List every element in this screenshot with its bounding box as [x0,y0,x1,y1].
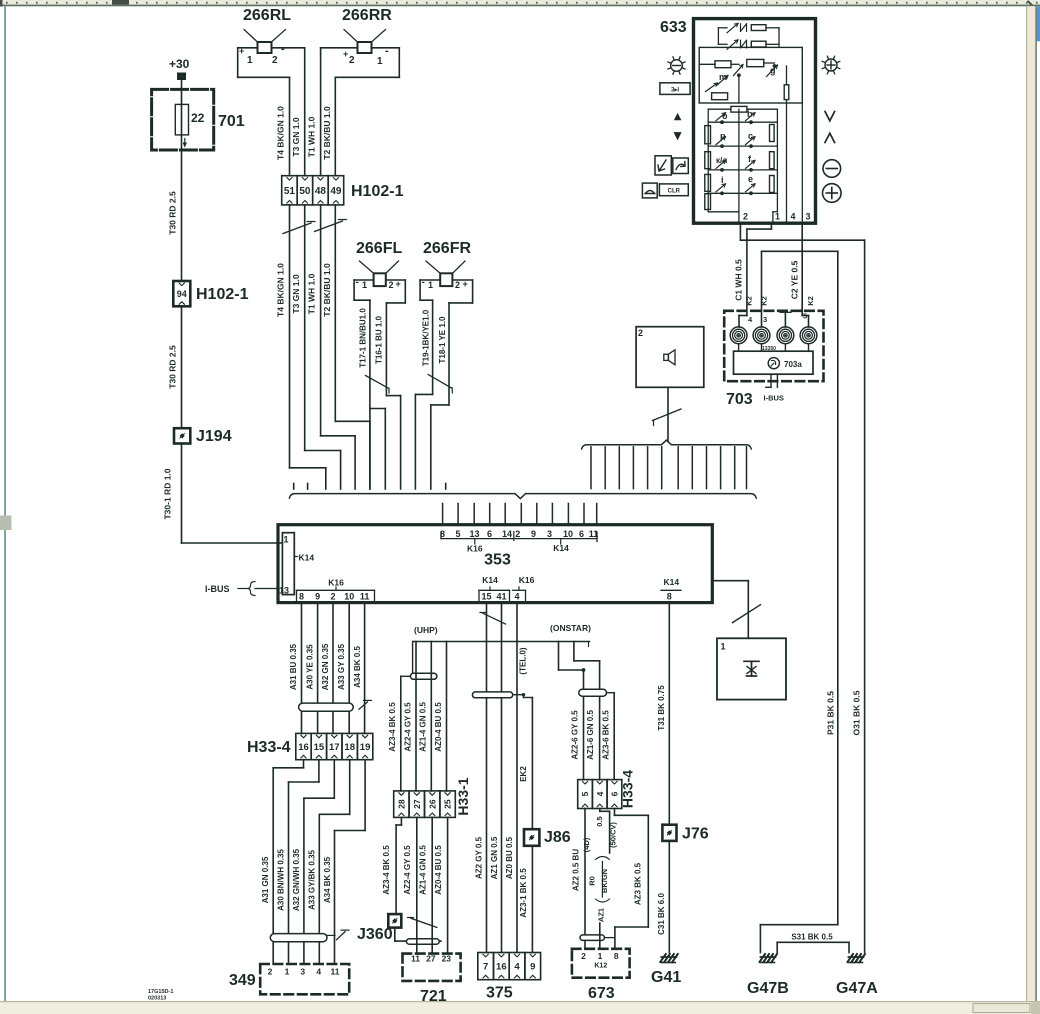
svg-text:I-BUS: I-BUS [764,394,784,403]
svg-text:020313: 020313 [148,996,166,1002]
svg-text:c: c [748,131,753,141]
svg-text:A31 GN 0.35: A31 GN 0.35 [261,856,270,903]
svg-text:5: 5 [455,529,460,539]
svg-text:(ONSTAR): (ONSTAR) [550,623,591,633]
svg-text:(50/CV): (50/CV) [608,822,617,848]
svg-text:K2: K2 [806,296,815,306]
svg-text:48: 48 [315,186,327,197]
svg-text:AZ0 BU 0.5: AZ0 BU 0.5 [505,836,514,879]
svg-text:A33 GY/BK 0.35: A33 GY/BK 0.35 [308,849,317,910]
svg-text:4: 4 [791,212,796,222]
svg-text:1: 1 [247,55,253,66]
svg-text:11: 11 [360,591,370,601]
svg-text:+: + [343,49,348,59]
svg-text:3▸I: 3▸I [671,88,679,94]
svg-text:8: 8 [667,591,672,601]
svg-text:721: 721 [420,988,447,1005]
svg-text:AZ1-4 GN 0.5: AZ1-4 GN 0.5 [419,845,428,895]
svg-text:AZ3 BK 0.5: AZ3 BK 0.5 [633,862,642,905]
svg-text:18: 18 [344,742,355,753]
svg-text:1: 1 [775,212,780,222]
svg-text:+: + [463,279,468,289]
svg-text:AZ3-4 BK 0.5: AZ3-4 BK 0.5 [382,845,391,895]
svg-text:349: 349 [229,972,256,989]
svg-text:8: 8 [614,951,619,961]
svg-text:J360: J360 [357,926,393,943]
svg-text:AZ1-6 GN 0.5: AZ1-6 GN 0.5 [586,710,595,760]
svg-text:I-BUS: I-BUS [205,584,230,594]
svg-text:S31 BK 0.5: S31 BK 0.5 [791,933,833,942]
svg-text:266RL: 266RL [243,7,291,24]
svg-text:94: 94 [177,289,187,299]
svg-text:A32 GN 0.35: A32 GN 0.35 [321,643,330,690]
svg-text:2: 2 [743,212,748,222]
svg-text:A33 GY 0.35: A33 GY 0.35 [337,643,346,690]
svg-text:13: 13 [469,529,479,539]
svg-text:i: i [721,175,724,185]
svg-text:2: 2 [268,967,273,977]
svg-text:T31 BK 0.75: T31 BK 0.75 [657,685,666,731]
svg-text:2: 2 [455,280,460,290]
svg-text:5: 5 [580,791,590,796]
svg-text:6: 6 [487,529,492,539]
svg-text:A31 BU 0.35: A31 BU 0.35 [289,643,298,690]
svg-text:H102-1: H102-1 [196,286,249,303]
svg-text:16: 16 [298,742,309,753]
svg-text:2: 2 [581,951,586,961]
svg-text:H33-1: H33-1 [455,777,471,815]
svg-text:-: - [281,43,285,55]
svg-text:25: 25 [443,799,453,809]
svg-text:11: 11 [331,967,340,977]
svg-text:27: 27 [412,799,422,809]
svg-text:+30: +30 [169,57,190,71]
svg-text:A34 BK 0.35: A34 BK 0.35 [323,856,332,903]
svg-text:2: 2 [272,55,278,66]
svg-text:p: p [720,131,726,141]
svg-text:AZ2 GY 0.5: AZ2 GY 0.5 [475,836,484,879]
svg-text:4: 4 [514,962,520,973]
svg-text:-: - [422,277,425,288]
svg-text:1: 1 [598,951,603,961]
svg-text:41: 41 [496,591,506,601]
svg-text:(UHP): (UHP) [414,625,438,635]
svg-text:2: 2 [389,280,394,290]
svg-text:1: 1 [285,967,290,977]
svg-text:T30 RD 2.5: T30 RD 2.5 [168,345,178,389]
svg-text:6: 6 [610,791,620,796]
svg-text:353: 353 [484,552,511,569]
svg-text:1: 1 [721,642,726,652]
svg-text:CLR: CLR [668,188,681,194]
svg-text:A30 YE 0.35: A30 YE 0.35 [305,644,314,690]
svg-text:6: 6 [579,529,584,539]
svg-text:K14: K14 [299,553,315,563]
svg-text:C31 BK 6.0: C31 BK 6.0 [657,893,666,935]
svg-text:T16-1 BU 1.0: T16-1 BU 1.0 [375,315,384,364]
svg-text:G41: G41 [651,969,681,986]
svg-text:K14: K14 [553,543,569,553]
svg-text:2: 2 [330,591,335,601]
svg-text:2: 2 [349,55,355,66]
svg-text:4: 4 [316,967,321,977]
svg-text:10: 10 [344,591,354,601]
svg-text:T1 WH 1.0: T1 WH 1.0 [307,273,317,314]
svg-text:633: 633 [660,19,687,36]
svg-text:-: - [385,45,389,57]
svg-text:+: + [396,279,401,289]
svg-text:51: 51 [284,186,296,197]
svg-text:AZ1 GN 0.5: AZ1 GN 0.5 [490,836,499,879]
svg-text:266RR: 266RR [342,7,392,24]
svg-text:EK2: EK2 [519,766,528,782]
svg-text:K14: K14 [664,577,680,587]
svg-text:4: 4 [595,791,605,796]
svg-text:375: 375 [486,985,513,1002]
svg-text:28: 28 [396,799,406,809]
svg-text:8: 8 [299,591,304,601]
svg-text:15: 15 [314,742,325,753]
svg-text:H33-4: H33-4 [247,739,291,756]
svg-text:2: 2 [638,328,643,338]
svg-text:3: 3 [300,967,305,977]
svg-text:K2: K2 [745,296,754,306]
svg-text:T19-1BK/YE1.0: T19-1BK/YE1.0 [421,309,430,366]
svg-text:23: 23 [442,954,452,964]
svg-text:T2 BK/BU 1.0: T2 BK/BU 1.0 [322,263,332,317]
svg-text:R0: R0 [588,876,597,886]
svg-text:1: 1 [362,280,367,290]
svg-text:T1 WH 1.0: T1 WH 1.0 [307,116,317,157]
svg-text:AZ2-4 GY 0.5: AZ2-4 GY 0.5 [403,845,412,895]
svg-text:A32 GN/WH 0.35: A32 GN/WH 0.35 [292,848,301,911]
svg-text:26: 26 [427,799,437,809]
svg-text:T3 GN 1.0: T3 GN 1.0 [291,117,301,156]
svg-text:P31 BK 0.5: P31 BK 0.5 [825,691,835,735]
svg-text:o: o [722,111,728,121]
svg-text:1: 1 [284,535,289,545]
svg-text:AZ1-4 GN 0.5: AZ1-4 GN 0.5 [419,702,428,752]
svg-text:27: 27 [426,954,436,964]
svg-text:2: 2 [515,529,520,539]
svg-text:A34 BK 0.5: A34 BK 0.5 [353,646,362,688]
svg-text:+: + [239,46,244,56]
svg-text:5: 5 [803,312,807,321]
svg-text:O31 BK 0.5: O31 BK 0.5 [852,690,862,735]
svg-text:AZ2-6 GY 0.5: AZ2-6 GY 0.5 [570,710,579,760]
svg-text:3: 3 [806,212,811,222]
svg-text:T30-1 RD 1.0: T30-1 RD 1.0 [163,468,173,519]
svg-text:e: e [748,174,753,184]
svg-text:1: 1 [428,280,433,290]
svg-text:703: 703 [726,391,753,408]
svg-text:K16: K16 [328,578,344,588]
svg-text:266FR: 266FR [423,240,471,257]
svg-text:7: 7 [483,962,488,973]
svg-text:11: 11 [411,954,420,964]
svg-text:G47A: G47A [836,980,878,997]
svg-text:9: 9 [315,591,320,601]
svg-text:-: - [356,277,359,288]
svg-text:1: 1 [377,56,383,67]
svg-text:J194: J194 [196,428,232,445]
svg-text:K16: K16 [519,575,535,585]
svg-text:J86: J86 [544,829,571,846]
svg-text:701: 701 [218,113,245,130]
svg-text:AZ3-6 BK 0.5: AZ3-6 BK 0.5 [601,710,610,760]
svg-text:AZ3-1 BK 0.5: AZ3-1 BK 0.5 [519,868,528,918]
svg-text:AZ2 0.5 BU: AZ2 0.5 BU [572,849,581,891]
svg-text:(4D): (4D) [582,837,591,852]
svg-text:H33-4: H33-4 [620,770,636,808]
svg-text:17: 17 [329,742,340,753]
svg-text:T17-1 BN/BU1.0: T17-1 BN/BU1.0 [359,308,368,368]
svg-text:16: 16 [496,962,507,973]
svg-text:3: 3 [763,315,767,324]
svg-text:к/л: к/л [716,156,727,165]
svg-text:22: 22 [191,111,205,125]
svg-text:C1 WH 0.5: C1 WH 0.5 [733,259,743,301]
svg-text:K14: K14 [482,575,498,585]
svg-text:K2: K2 [760,296,769,306]
svg-text:BK/GN: BK/GN [600,869,609,893]
svg-text:H102-1: H102-1 [351,183,404,200]
svg-text:b: b [747,109,753,119]
svg-text:C2 YE 0.5: C2 YE 0.5 [790,260,800,299]
svg-text:9: 9 [530,962,535,973]
svg-text:AZ0-4 BU 0.5: AZ0-4 BU 0.5 [434,702,443,752]
svg-text:0.5: 0.5 [595,816,604,826]
svg-text:10: 10 [563,529,573,539]
svg-text:3: 3 [547,529,552,539]
svg-text:K16: K16 [467,544,483,554]
svg-text:50: 50 [299,186,311,197]
svg-text:15: 15 [481,591,491,601]
svg-text:13: 13 [279,586,289,596]
svg-text:49: 49 [330,186,342,197]
svg-text:(TEL.0): (TEL.0) [519,647,528,674]
svg-text:T4 BK/GN 1.0: T4 BK/GN 1.0 [276,263,286,317]
svg-text:14: 14 [502,529,512,539]
svg-text:AZ1: AZ1 [597,908,606,922]
svg-text:703a: 703a [784,360,802,369]
svg-text:266FL: 266FL [356,240,402,257]
svg-text:T2 BK/BU 1.0: T2 BK/BU 1.0 [322,106,332,160]
svg-text:AZ0-4 BU 0.5: AZ0-4 BU 0.5 [434,845,443,895]
svg-text:13350: 13350 [762,346,776,352]
svg-text:4: 4 [514,591,519,601]
svg-text:673: 673 [588,985,615,1002]
svg-text:A30 BN/WH 0.35: A30 BN/WH 0.35 [277,849,286,911]
svg-text:T4 BK/GN 1.0: T4 BK/GN 1.0 [276,106,286,160]
svg-text:G47B: G47B [747,980,789,997]
svg-text:T30 RD 2.5: T30 RD 2.5 [168,191,178,235]
svg-text:T18-1 YE 1.0: T18-1 YE 1.0 [438,316,447,364]
svg-text:T3 GN 1.0: T3 GN 1.0 [291,274,301,313]
svg-text:9: 9 [531,529,536,539]
svg-text:K12: K12 [594,963,607,970]
svg-text:AZ2-4 GY 0.5: AZ2-4 GY 0.5 [403,702,412,752]
svg-text:AZ3-4 BK 0.5: AZ3-4 BK 0.5 [388,702,397,752]
svg-text:19: 19 [360,742,371,753]
svg-text:17G15D-1: 17G15D-1 [148,989,173,995]
svg-text:J76: J76 [682,826,709,843]
